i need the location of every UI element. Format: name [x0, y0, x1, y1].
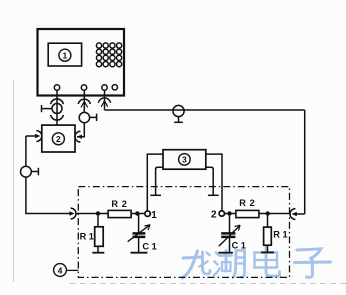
wire terminal2 circle down to box2 right connector	[77, 123, 84, 137]
box3 left wire to node 1	[147, 154, 163, 211]
svg-text:2: 2	[211, 209, 217, 220]
resistor R2 right	[236, 210, 259, 217]
probe circle on left wire	[21, 166, 39, 177]
svg-text:C 1: C 1	[142, 241, 156, 251]
ground under R1 left	[97, 246, 99, 252]
instrument box 1 (signal generator)	[38, 29, 125, 96]
wire into box4 right connector	[296, 213, 305, 215]
svg-text:1: 1	[63, 50, 68, 60]
ground under C1 right	[229, 237, 231, 253]
connector arc + arrow on terminal2 wire	[78, 99, 96, 123]
wire R2 right to border	[259, 213, 290, 215]
right vertical wire down	[304, 110, 306, 214]
junction right R1	[266, 211, 270, 215]
capacitor C1 right (variable)	[229, 214, 231, 233]
left wire down and into box4	[26, 177, 72, 213]
terminal circles of instrument 1	[54, 85, 117, 91]
capacitor C1 left (variable)	[138, 214, 140, 233]
wire terminal2 down	[83, 90, 85, 112]
resistor R2 left	[108, 210, 131, 217]
label circled 2	[52, 133, 64, 145]
box3 right wire to node 2	[206, 154, 222, 211]
connector arc at box2 right	[75, 131, 82, 142]
meter tap circle on top rail	[173, 105, 184, 122]
node 1	[145, 211, 150, 216]
junction right C1	[227, 211, 231, 215]
label circled 3	[179, 154, 191, 166]
svg-text:R 1: R 1	[80, 232, 94, 242]
box 3 (probe unit)	[163, 150, 206, 170]
wire into box2 left connector	[26, 135, 37, 137]
connector symbol on terminal1 wire	[42, 99, 64, 120]
svg-text:1: 1	[151, 210, 157, 221]
wire node2 to R2 right	[225, 213, 236, 215]
box 2 (attenuator)	[42, 125, 75, 152]
top rail wire to the right	[105, 109, 305, 111]
wire terminal3 down, arc+arrow, to top rail	[104, 90, 106, 110]
resistor R1 right	[267, 214, 269, 228]
scan artifact lines (decorative)	[13, 80, 15, 282]
svg-text:3: 3	[182, 155, 187, 165]
svg-text:4: 4	[58, 265, 63, 275]
box 4 shielded enclosure (dash-dot)	[78, 187, 289, 278]
svg-text:R 2: R 2	[239, 198, 255, 208]
svg-text:R 2: R 2	[111, 199, 127, 209]
speaker dot grid of instrument 1	[96, 43, 121, 67]
svg-text:2: 2	[56, 134, 61, 144]
connector arc at box4 left	[69, 208, 76, 219]
svg-text:C 1: C 1	[232, 241, 246, 251]
svg-text:R 1: R 1	[273, 229, 287, 239]
left vertical wire	[25, 136, 27, 166]
node 2	[219, 211, 224, 216]
box3 right probe stub with T end	[206, 167, 219, 195]
resistor R1 left	[97, 214, 99, 227]
label circled 1	[59, 49, 71, 61]
ground under C1 left	[138, 237, 140, 253]
screen of instrument 1	[48, 43, 81, 66]
wire R2 to node1	[131, 213, 144, 215]
label circled 4	[54, 264, 79, 277]
ground under R1 right	[267, 245, 269, 252]
main wire inside box4 left half	[76, 213, 109, 215]
wire terminal1 down to box2	[56, 90, 58, 125]
box3 left probe stub with T end	[150, 167, 163, 195]
junction left C1	[135, 211, 139, 215]
junction left R1	[96, 211, 100, 215]
watermark 龙湖电子 (drawn)	[183, 247, 331, 279]
